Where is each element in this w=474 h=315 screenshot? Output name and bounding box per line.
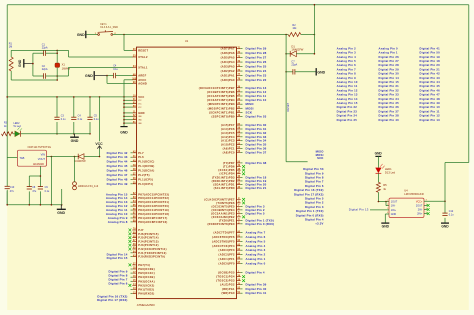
svg-text:Digital Pin 27: Digital Pin 27 [379,59,400,63]
capacitor C2 22pA [33,65,57,79]
svg-text:Analog Pin 5: Analog Pin 5 [246,239,266,243]
svg-text:HDR-M-2.54_1x3: HDR-M-2.54_1x3 [78,184,99,188]
ground (LED1 top) [375,151,383,156]
svg-text:K2-3.6-6.1_SMD: K2-3.6-6.1_SMD [100,26,118,29]
svg-text:NCP1117ST50T3G: NCP1117ST50T3G [28,145,52,149]
svg-text:Analog Pin 13: Analog Pin 13 [337,93,358,97]
svg-text:GND: GND [18,59,22,67]
svg-text:0.1u: 0.1u [61,118,66,121]
svg-text:Digital Pin 24: Digital Pin 24 [246,69,267,73]
svg-text:(A11)PC3: (A11)PC3 [221,139,235,143]
svg-text:PJ6(PCINT15): PJ6(PCINT15) [138,232,159,236]
diode D2 1N4007W [74,154,99,163]
svg-text:1: 1 [387,200,388,202]
svg-text:(OC1BPCINT6)PB6: (OC1BPCINT6)PB6 [207,90,235,94]
net labels MISO MOSI SCK [316,149,325,160]
ground (U4) [381,223,389,229]
svg-text:Digital Pin 21: Digital Pin 21 [420,67,441,71]
svg-text:Digital Pin 28: Digital Pin 28 [246,51,267,55]
svg-text:Digital Pin 35: Digital Pin 35 [379,101,400,105]
svg-text:Digital Pin 40: Digital Pin 40 [379,118,400,122]
wire GND to KEY1 [86,34,97,36]
svg-text:Digital Pin 25: Digital Pin 25 [246,65,267,69]
svg-text:5v Led: 5v Led [14,125,22,128]
svg-text:Analog Pin 6: Analog Pin 6 [246,235,266,239]
net label column 3 (top right) [420,46,441,121]
svg-text:PH7(T4): PH7(T4) [138,263,150,267]
svg-text:16MHz: 16MHz [62,66,71,70]
wire jack gnd drop [61,189,63,205]
U1 port A pins [221,46,267,82]
svg-text:GND: GND [391,213,397,216]
svg-text:(WR)PG0: (WR)PG0 [221,291,235,295]
svg-text:2: 2 [387,204,388,206]
wire RESET to ICSP [286,161,308,163]
U1 port C pins [221,123,267,155]
wire VOUT tap down to bus [50,157,52,205]
svg-text:GND: GND [120,130,128,134]
svg-text:PH5(OC4C): PH5(OC4C) [138,271,155,275]
LED1 D13 Led [376,164,396,175]
wire C1-C2 left vertical [32,53,34,76]
svg-text:(SDAINT1)PD1: (SDAINT1)PD1 [213,183,235,187]
svg-text:PK6(ADC14PCINT22): PK6(ADC14PCINT22) [138,196,169,200]
junction 1OUT [378,201,387,203]
svg-text:PK4(ADC12PCINT20): PK4(ADC12PCINT20) [138,204,169,208]
svg-text:Analog Pin 12: Analog Pin 12 [337,88,358,92]
svg-text:Digital Pin 15: Digital Pin 15 [379,80,400,84]
svg-text:(A8)PC0: (A8)PC0 [223,150,235,154]
diode D1 1N4007W [286,44,314,56]
svg-text:(OC0AOC1CPCINT7)PB7: (OC0AOC1CPCINT7)PB7 [199,86,235,90]
svg-text:PJ2(XCK3PCINT11): PJ2(XCK3PCINT11) [138,247,167,251]
U1 GND pins [124,111,145,125]
svg-text:1IN-: 1IN- [391,205,396,208]
svg-text:Digital Pin 46: Digital Pin 46 [107,169,128,173]
wire RESET to U1 pin30 [124,35,133,51]
svg-text:PK1(ADC9PCINT17): PK1(ADC9PCINT17) [138,216,167,220]
svg-text:Analog Pin 7: Analog Pin 7 [337,67,357,71]
regulator U3 NCP1117ST50T3G [17,145,51,166]
resistor R3 1k [2,122,15,136]
U1 pin 34 XTAL1 [132,65,148,69]
junction C7 left [285,71,287,73]
svg-text:Digital Pin 22: Digital Pin 22 [246,78,267,82]
svg-text:2IN-: 2IN- [418,209,423,212]
capacitor C10 47u [5,186,15,205]
svg-text:(T3INT6)PE6: (T3INT6)PE6 [216,201,235,205]
svg-text:AREF: AREF [138,74,146,78]
svg-text:Digital Pin 20: Digital Pin 20 [420,63,441,67]
wire 1OUT feedback to 1IN- [386,202,389,206]
svg-text:(TOSC2)PG3: (TOSC2)PG3 [216,279,235,283]
svg-text:Digital Pin 50: Digital Pin 50 [420,51,441,55]
svg-text:GND: GND [441,225,449,229]
svg-text:PL4(OC5B): PL4(OC5B) [138,164,154,168]
svg-text:Digital Pin 24: Digital Pin 24 [337,114,358,118]
resistor R5 1k [376,182,387,192]
U1 pin 100 AVCC [132,78,146,82]
svg-text:22pA: 22pA [291,63,297,66]
svg-text:2IN+: 2IN+ [417,213,423,216]
svg-text:Analog Pin 7: Analog Pin 7 [246,231,266,235]
svg-text:U4: U4 [404,188,408,192]
svg-text:PL1(ICP5): PL1(ICP5) [138,177,153,181]
ground (AREF) [85,71,107,80]
svg-text:PH3(OC4A): PH3(OC4A) [138,279,155,283]
svg-text:Digital Pin 37: Digital Pin 37 [379,109,400,113]
junction VOUT caps tap [51,156,53,158]
ground (crystal, rotated) [18,59,33,68]
svg-text:PL6: PL6 [138,155,144,159]
U1 port L pins [107,151,155,186]
svg-text:VIN: VIN [41,153,45,157]
resistor R2 10k [286,24,314,36]
svg-text:PK7(ADC15PCINT23): PK7(ADC15PCINT23) [138,192,169,196]
U1 VCC pins [124,95,145,109]
svg-text:Digital Pin 53: Digital Pin 53 [246,115,267,119]
svg-text:Digital Pin 33: Digital Pin 33 [379,93,400,97]
svg-text:(SCKPCINT1)PB1: (SCKPCINT1)PB1 [209,110,235,114]
svg-text:Digital Pin 11: Digital Pin 11 [420,109,440,113]
svg-text:Digital Pin 17 (RX2): Digital Pin 17 (RX2) [97,298,128,302]
svg-text:(AD3)PA3: (AD3)PA3 [221,65,235,69]
svg-text:D13 Led: D13 Led [385,171,396,175]
svg-text:ADJ/GND: ADJ/GND [33,163,44,166]
no-connects U4 right pins [424,204,430,215]
svg-text:Digital Pin 29: Digital Pin 29 [379,67,400,71]
wire R2 to VCC rail [313,5,315,35]
svg-text:XTAL2: XTAL2 [138,55,148,59]
wire caps GND bus [21,133,90,135]
svg-text:(A12)PC4: (A12)PC4 [221,135,235,139]
svg-text:(ADC5TMS)PF5: (ADC5TMS)PF5 [212,239,235,243]
svg-text:(RXD1INT2)PD2: (RXD1INT2)PD2 [212,179,235,183]
wire Digital Pin 13 to 1IN+ [370,209,389,211]
svg-text:TAB: TAB [20,156,25,160]
svg-text:Digital Pin 19: Digital Pin 19 [420,55,441,59]
svg-text:PK3(ADC11PCINT19): PK3(ADC11PCINT19) [138,208,169,212]
net label Digital Pin 13 [349,208,369,212]
capacitor C8 47u [27,186,37,205]
svg-text:RESET: RESET [138,48,148,52]
svg-text:Digital Pin 18: Digital Pin 18 [420,59,441,63]
svg-text:Analog Pin 4: Analog Pin 4 [337,55,357,59]
svg-text:(TXD1INT3)PD3: (TXD1INT3)PD3 [212,175,235,179]
svg-text:Analog Pin 0: Analog Pin 0 [379,46,399,50]
svg-text:(A14)PC6: (A14)PC6 [221,127,235,131]
svg-text:0.1u: 0.1u [94,118,99,121]
svg-text:PL2(T5): PL2(T5) [138,173,150,177]
svg-text:100: 100 [132,78,137,81]
svg-text:(XCK0AIN0)PE2: (XCK0AIN0)PE2 [211,215,235,219]
svg-text:GND: GND [57,211,65,215]
svg-text:LED1: LED1 [385,167,392,171]
svg-text:PL5(OC5C): PL5(OC5C) [138,160,154,164]
svg-text:Analog Pin 1: Analog Pin 1 [246,257,266,261]
svg-text:VOUT: VOUT [38,157,46,161]
svg-text:2OUT: 2OUT [416,205,423,208]
power flag VCC (regulator) [95,142,103,149]
junction D1 right [314,53,316,55]
wire ADJ/GND down [29,166,41,186]
junction bus [6,204,62,206]
svg-text:Digital Pin 38: Digital Pin 38 [379,114,400,118]
U1 pin 99 AGND [132,81,147,85]
svg-text:Digital Pin 13: Digital Pin 13 [420,118,441,122]
svg-text:Digital Pin 49: Digital Pin 49 [107,182,128,186]
wire D1 to VCC column [313,35,315,54]
svg-text:Analog Pin 6: Analog Pin 6 [337,63,357,67]
wire regulator GND bus [7,204,62,206]
wire LED1 to R5 [377,173,379,182]
svg-text:Digital Pin 49: Digital Pin 49 [420,101,441,105]
svg-text:Digital Pin 36: Digital Pin 36 [379,105,400,109]
wire VCC top rail [7,4,469,6]
svg-text:SCK: SCK [317,156,324,160]
U1 pin 98 AREF [132,73,146,77]
svg-text:(ADC4TCK)PF4: (ADC4TCK)PF4 [212,244,235,248]
svg-text:Digital Pin 28: Digital Pin 28 [379,63,400,67]
svg-text:Analog Pin 3: Analog Pin 3 [337,51,357,55]
svg-text:GND: GND [382,225,390,229]
svg-text:Digital Pin 14: Digital Pin 14 [379,76,400,80]
svg-text:Digital Pin 0 (RX0): Digital Pin 0 (RX0) [246,222,275,226]
svg-text:(AD1)PA1: (AD1)PA1 [221,74,235,78]
svg-text:Analog Pin 4: Analog Pin 4 [246,244,266,248]
svg-text:VCC: VCC [138,95,144,99]
svg-text:(AD7)PA7: (AD7)PA7 [221,47,235,51]
svg-text:Digital Pin 45: Digital Pin 45 [107,164,128,168]
svg-text:Digital Pin 41: Digital Pin 41 [246,291,267,295]
capacitor C12 0.1u [442,201,454,223]
svg-text:Digital Pin 6: Digital Pin 6 [108,282,127,286]
svg-text:1N4007W: 1N4007W [291,47,303,51]
svg-text:Digital Pin 46: Digital Pin 46 [420,88,441,92]
svg-text:Analog Pin 8: Analog Pin 8 [108,220,128,224]
wire R1 top rail [11,49,57,51]
svg-text:Digital Pin 34: Digital Pin 34 [379,97,400,101]
svg-text:(OC0B)PG5: (OC0B)PG5 [218,271,235,275]
svg-text:Analog Pin 5: Analog Pin 5 [337,59,357,63]
U1 port J pins [107,228,167,261]
wire VCC jog to op-amp column [445,163,469,202]
junction VCC rail left [6,96,8,98]
net label column 2 (top right) [379,46,400,121]
svg-text:(RD)PG1: (RD)PG1 [222,287,235,291]
junction xtal top [56,50,58,54]
svg-text:(ADC0)PF0: (ADC0)PF0 [219,261,236,265]
junction crystal gnd tap [32,63,34,65]
junction D2 jack tap [74,156,76,158]
svg-text:(RXD0PCINT8)PE0: (RXD0PCINT8)PE0 [208,222,236,226]
net label column (right of U1) [294,167,324,226]
wire AVCC [124,80,133,97]
svg-text:Digital Pin 30: Digital Pin 30 [379,72,400,76]
svg-text:(MOSIPCINT2)PB2: (MOSIPCINT2)PB2 [208,106,235,110]
svg-text:C12: C12 [449,210,454,213]
svg-text:PH2(XCK2): PH2(XCK2) [138,283,154,287]
svg-text:(OC2APCINT4)PB4: (OC2APCINT4)PB4 [207,98,235,102]
svg-text:Digital Pin 26: Digital Pin 26 [379,55,400,59]
svg-text:(T1)PD6: (T1)PD6 [223,165,235,169]
svg-text:Analog Pin 11: Analog Pin 11 [337,84,358,88]
wire VCC rail [7,96,132,98]
svg-text:Digital Pin 22: Digital Pin 22 [337,105,358,109]
svg-text:(SCLINT0)PD0: (SCLINT0)PD0 [214,186,235,190]
svg-text:PH1(TXD2): PH1(TXD2) [138,288,154,292]
wire GND to LED1 [377,156,379,167]
svg-text:Analog Pin 0: Analog Pin 0 [246,261,266,265]
wire RESET vertical [285,35,287,162]
svg-text:Analog Pin 3: Analog Pin 3 [246,248,266,252]
net label RESET (vertical) [286,102,290,111]
svg-text:Digital Pin 44: Digital Pin 44 [107,160,128,164]
svg-text:Analog Pin 9: Analog Pin 9 [337,76,357,80]
svg-text:GND: GND [77,33,85,37]
LED2 5v Led [14,122,22,137]
svg-text:1M: 1M [9,45,12,48]
svg-text:(AD5)PA5: (AD5)PA5 [221,56,235,60]
svg-text:Digital Pin 4: Digital Pin 4 [246,271,265,275]
svg-text:Analog Pin 15: Analog Pin 15 [337,101,358,105]
svg-text:Digital Pin 43: Digital Pin 43 [107,155,128,159]
junction VCC / C12 [444,201,446,203]
wire crystal vertical [56,50,58,80]
U1 pin 30 RESET [132,48,148,52]
wire TAB to frame [7,157,17,159]
junction VCC rail / R2 [314,4,316,6]
svg-text:Digital Pin 43: Digital Pin 43 [420,76,441,80]
svg-text:22pA: 22pA [42,47,48,50]
svg-text:Digital Pin 41: Digital Pin 41 [420,46,441,50]
svg-text:GND: GND [375,151,383,155]
junction AREF tee [106,75,108,77]
ground (C12) [441,223,449,229]
U1 port G pins [216,270,266,295]
junction D1 left [285,53,287,55]
svg-text:PH6(OC2B): PH6(OC2B) [138,267,155,271]
svg-text:PH0(RXD2): PH0(RXD2) [138,292,154,296]
U1 port F pins [212,230,265,265]
U1 port K pins [106,192,169,224]
U1 port B pins [199,86,267,119]
svg-text:Digital Pin 27: Digital Pin 27 [246,56,267,60]
svg-text:XTAL1: XTAL1 [138,65,148,69]
svg-text:(A13)PC5: (A13)PC5 [221,131,235,135]
svg-text:Digital Pin 31: Digital Pin 31 [379,84,400,88]
svg-text:GND: GND [85,74,93,78]
svg-text:22pA: 22pA [42,68,48,71]
svg-text:Analog Pin 8: Analog Pin 8 [337,72,357,76]
capacitor C4 0.1u (decoupling) [71,96,83,135]
wire AGND [107,76,133,84]
svg-text:47u: 47u [10,190,15,193]
svg-text:(ADC2)PF2: (ADC2)PF2 [219,253,236,257]
ground (U1 GND pins) [120,127,128,135]
svg-text:(MISOPCINT3)PB3: (MISOPCINT3)PB3 [208,102,235,106]
svg-text:(TOSC1)PG4: (TOSC1)PG4 [216,275,235,279]
svg-text:PL0(ICP4): PL0(ICP4) [138,182,153,186]
svg-text:(A10)PC2: (A10)PC2 [221,143,235,147]
wire jack to VOUT net [74,157,76,182]
pushbutton KEY1 K2-3.6-6.1_SMD [95,23,118,35]
svg-text:Digital Pin 47: Digital Pin 47 [107,173,128,177]
svg-text:Digital Pin 10: Digital Pin 10 [420,105,441,109]
svg-text:Analog Pin 2: Analog Pin 2 [246,253,266,257]
wire XTAL2 to U1 [57,50,132,57]
svg-text:VCC: VCC [95,142,103,146]
svg-text:+3.3V: +3.3V [315,222,323,226]
junction VCC symbol column [99,96,101,98]
wire R1 bottom rail [11,79,57,81]
svg-text:(ADC7TDI)PF7: (ADC7TDI)PF7 [213,231,235,235]
U1 pin 33 XTAL2 [132,55,148,59]
svg-text:PJ4(PCINT13): PJ4(PCINT13) [138,239,159,243]
capacitor C9 0.1u [38,186,50,205]
svg-text:(TXD0)PE1: (TXD0)PE1 [219,218,235,222]
svg-text:Digital Pin 29: Digital Pin 29 [246,47,267,51]
svg-text:PJ0(RXD3PCINT9): PJ0(RXD3PCINT9) [138,255,165,259]
svg-text:U1: U1 [185,39,189,43]
svg-text:(ADC1)PF1: (ADC1)PF1 [219,257,236,261]
wire VCC flag down to D2 node [99,149,101,157]
capacitor C1 22pA [33,44,57,56]
svg-text:VCC+: VCC+ [416,201,423,204]
svg-text:Digital Pin 42: Digital Pin 42 [420,72,441,76]
wire VCC right side [468,5,470,163]
svg-text:(ADC6TDO)PF6: (ADC6TDO)PF6 [212,235,235,239]
svg-text:(A15)PC7: (A15)PC7 [221,123,235,127]
svg-text:Digital Pin 37: Digital Pin 37 [246,150,267,154]
wire R5 to U4 1OUT [378,192,389,201]
svg-text:Analog Pin 1: Analog Pin 1 [379,51,399,55]
svg-text:(ICP1)PD4: (ICP1)PD4 [220,172,235,176]
svg-text:Analog Pin 10: Analog Pin 10 [337,80,358,84]
svg-text:PK0(ADC8PCINT16): PK0(ADC8PCINT16) [138,220,167,224]
svg-text:PH4(OC4B): PH4(OC4B) [138,275,155,279]
junction R2 left [285,34,287,36]
svg-text:(OC3AAIN1)PE3: (OC3AAIN1)PE3 [211,211,235,215]
junction xtal bottom [56,75,58,81]
capacitor C4 0.1u (AREF) [107,64,133,78]
crystal X1 16MHz [55,63,71,71]
wire U4 GND pin [385,214,389,223]
svg-text:(AD6)PA6: (AD6)PA6 [221,51,235,55]
op-amp U4 LMV358IDGKR [387,188,427,217]
ground (switch) [77,31,86,39]
svg-text:Digital Pin 48: Digital Pin 48 [420,97,441,101]
svg-text:ATMEGA2560: ATMEGA2560 [137,303,155,307]
svg-text:Digital Pin 44: Digital Pin 44 [420,80,441,84]
svg-text:AGND: AGND [138,81,147,85]
svg-text:C10: C10 [10,186,15,189]
wire XTAL1 to U1 [57,67,132,76]
svg-text:(AD2)PA2: (AD2)PA2 [221,69,235,73]
svg-text:RESET: RESET [286,102,290,111]
op IC U1 outline [137,39,237,307]
svg-text:(CLKOICP3INT7)PE7: (CLKOICP3INT7)PE7 [204,197,235,201]
svg-text:Digital Pin 25: Digital Pin 25 [337,118,358,122]
svg-text:Digital Pin 45: Digital Pin 45 [420,84,441,88]
svg-text:PJ1(TXD3PCINT10): PJ1(TXD3PCINT10) [138,251,166,255]
svg-text:(AD0)PA0: (AD0)PA0 [221,78,235,82]
svg-text:Digital Pin 13: Digital Pin 13 [349,208,369,212]
U1 port H pins [97,263,155,303]
svg-text:Digital Pin 48: Digital Pin 48 [107,177,128,181]
svg-text:(OC1APCINT5)PB5: (OC1APCINT5)PB5 [207,94,235,98]
ground (regulator bus) [57,205,66,215]
